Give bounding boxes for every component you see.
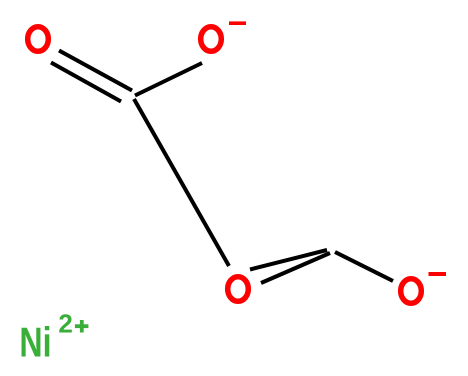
bottom upper line V-C2	[250, 250, 327, 270]
single bond C1-O2	[135, 63, 202, 96]
minus on O2	[229, 21, 246, 25]
bond C2-O4	[335, 252, 393, 281]
double bond C1=O1 line 2	[51, 63, 121, 102]
oxygen O2	[201, 27, 222, 52]
svg-text:2: 2	[58, 309, 72, 339]
svg-text:Ni: Ni	[19, 318, 51, 365]
oxygen O1	[28, 27, 49, 52]
minus on O4	[429, 272, 447, 276]
double bond C1=O1 line 1	[59, 51, 132, 91]
oxygen O3	[228, 277, 249, 302]
long diagonal C1-V	[134, 99, 229, 266]
bottom lower line O3-C2	[261, 253, 330, 283]
oxygen O4	[401, 279, 422, 304]
